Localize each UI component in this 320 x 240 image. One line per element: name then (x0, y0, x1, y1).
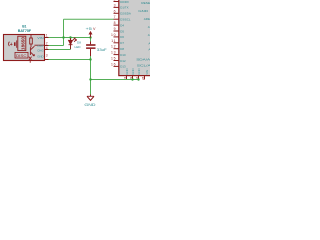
pin stub D13 (114, 65, 119, 67)
svg-text:3: 3 (46, 54, 48, 58)
svg-text:GND: GND (84, 103, 96, 107)
svg-text:RESE: RESE (141, 1, 150, 5)
capacitor C1 plates (86, 44, 95, 49)
IC U1 left-side pin names (120, 0, 131, 69)
svg-text:18650: 18650 (20, 37, 25, 50)
pin stub D1/TX (114, 6, 119, 8)
svg-text:28: 28 (141, 76, 145, 80)
svg-text:2: 2 (46, 42, 48, 46)
svg-text:LED: LED (75, 45, 82, 49)
svg-text:3: 3 (114, 3, 117, 7)
svg-text:ARE: ARE (144, 17, 150, 21)
svg-text:A3: A3 (148, 48, 150, 52)
svg-text:GND: GND (137, 68, 141, 74)
transistor Q (internal) (30, 45, 44, 56)
svg-text:D3/SCL: D3/SCL (120, 18, 131, 22)
pin stub D4 (114, 24, 119, 26)
pin stub GND 1 (126, 76, 128, 80)
pin stub GND 3 (138, 76, 140, 80)
svg-text:D12: D12 (120, 59, 126, 63)
svg-text:D6: D6 (120, 35, 124, 39)
pin stub D7 (114, 42, 119, 44)
svg-text:VIN: VIN (37, 36, 43, 40)
pin stub D6 (114, 36, 119, 38)
pin stub VIN (pin 1) (45, 37, 49, 39)
junction GND pin 2 (132,79) (131, 78, 133, 80)
pin stub OUT (pin 2) (45, 45, 49, 47)
svg-text:A0: A0 (148, 25, 150, 29)
svg-text:9: 9 (114, 27, 117, 31)
svg-text:D5: D5 (120, 29, 124, 33)
+5V power symbol (arrow) (89, 31, 93, 38)
LED D8 (pointing down, with emission arrows) (69, 38, 77, 49)
svg-text:CHG: CHG (37, 48, 44, 52)
x-mark and bottom stub of battery module (29, 57, 32, 63)
svg-text:16: 16 (111, 62, 116, 66)
pin stub D5 (114, 30, 119, 32)
svg-text:VIN: VIN (145, 70, 149, 75)
pin stub D8 (114, 48, 119, 50)
svg-text:D2/SDA: D2/SDA (120, 12, 131, 16)
svg-text:4: 4 (46, 46, 48, 50)
svg-text:A1: A1 (148, 33, 150, 37)
wire: GND rail horizontal y=59 from battery pin 3 to capacitor bottom (49, 59, 91, 61)
ground symbol (87, 95, 94, 101)
pin stub D12 (114, 60, 119, 62)
svg-text:GND: GND (37, 54, 43, 58)
battery cell outline (18650 cell) (18, 36, 26, 50)
wire: horizontal from node A to IC pin D3/SCL (64, 18, 114, 20)
resistor R (internal, European box style) (30, 35, 33, 47)
pin stub GND (pin 3) (45, 59, 49, 61)
IC U1 bottom pin names (rotated) (125, 68, 149, 74)
svg-text:GND: GND (131, 68, 135, 74)
svg-text:BAT75F: BAT75F (18, 29, 31, 33)
junction at node A column on +5V rail (63,37) (62, 36, 64, 38)
battery cell bars (15, 40, 17, 47)
pin stub VIN (144, 76, 146, 80)
svg-text:D4: D4 (120, 23, 124, 27)
wire: GND stem down to ground symbol (90, 80, 92, 95)
svg-text:D0/RX: D0/RX (120, 0, 129, 4)
svg-text:8: 8 (114, 21, 117, 25)
pin stub D2/SDA (114, 12, 119, 14)
IC U1 left-side pin stubs (pins D0/RX..D13) (114, 2, 119, 67)
svg-text:DISC: DISC (16, 54, 27, 58)
wire: vertical x=63 from node A down across +5V rail to battery pin 2 wire (63, 19, 65, 45)
wire: capacitor top lead to +5V rail (90, 38, 92, 42)
IC U1 body (microcontroller, cut off at top and right edges) (119, 0, 159, 76)
svg-text:A2: A2 (148, 42, 150, 46)
battery module B1 body box (4, 35, 45, 61)
junction GND pin 3 (138,79) (137, 78, 139, 80)
capacitor C1 leads (90, 42, 92, 57)
pin stub D0/RX (114, 1, 119, 3)
svg-text:GND: GND (138, 9, 149, 13)
svg-text:B1: B1 (22, 24, 26, 28)
wire: GND vertical x=90 down to bottom rail (90, 60, 92, 80)
battery B1 pin names (37, 36, 44, 58)
pin stub D10 (114, 54, 119, 56)
pin stub GND 2 (132, 76, 134, 80)
svg-text:13: 13 (111, 51, 116, 55)
svg-text:6: 6 (114, 9, 117, 13)
svg-text:D10: D10 (120, 53, 126, 57)
svg-text:OUT: OUT (37, 44, 44, 48)
svg-text:7: 7 (114, 15, 117, 19)
battery B1 right-side pin stubs (45, 38, 49, 60)
IC U1 left-side pin numbers (111, 0, 116, 66)
svg-text:+5: +5 (86, 27, 92, 31)
svg-text:33uF: 33uF (97, 48, 107, 52)
svg-text:SDA/A: SDA/A (136, 57, 150, 61)
svg-text:1: 1 (46, 34, 48, 38)
svg-text:D1/TX: D1/TX (120, 6, 128, 10)
wire: +5V rail horizontal y=37 from battery pin 1 to capacitor top (49, 37, 91, 39)
svg-text:10: 10 (111, 33, 116, 37)
pin stub CHG (pin 4) (45, 49, 49, 51)
IC U1 bottom pin stubs (GND/VIN pins) (127, 76, 145, 80)
pin stub D3/SCL (114, 18, 119, 20)
battery polarity arc (8, 42, 11, 46)
svg-text:15: 15 (111, 57, 116, 61)
wire: horizontal from battery pin 4 to LED cathode (49, 49, 71, 51)
IC U1 bottom pin numbers (rotated) (123, 76, 145, 80)
IC U1 right-side pin name fragments (clipped by image edge) (136, 1, 152, 67)
junction +5V symbol / capacitor top (90,37) (89, 36, 91, 38)
svg-text:D13: D13 (120, 65, 126, 69)
svg-text:+: + (10, 42, 13, 48)
svg-text:GND: GND (125, 68, 129, 74)
svg-text:D7: D7 (120, 41, 124, 45)
svg-text:D8: D8 (77, 40, 81, 44)
wire: capacitor bottom lead to GND rail (90, 56, 92, 60)
wire: GND horizontal y=79 to IC bottom GND pins (91, 79, 139, 81)
svg-text:D8: D8 (120, 47, 124, 51)
svg-text:2: 2 (114, 0, 117, 2)
battery B1 pin numbers (46, 34, 48, 58)
wire: vertical LED branch from +5V rail down to cathode wire (70, 38, 72, 50)
junction capacitor bottom on GND rail (90,59) (89, 58, 91, 60)
junction GND tee (90,79) (89, 78, 91, 80)
DISC sub-box (15, 52, 28, 58)
svg-text:SCL/A: SCL/A (137, 63, 150, 67)
wire: horizontal from battery pin 2 to vertical x=63 (49, 45, 64, 47)
junction LED anode on +5V rail (70,37) (69, 36, 71, 38)
svg-text:12: 12 (111, 45, 116, 49)
svg-text:11: 11 (111, 39, 116, 43)
